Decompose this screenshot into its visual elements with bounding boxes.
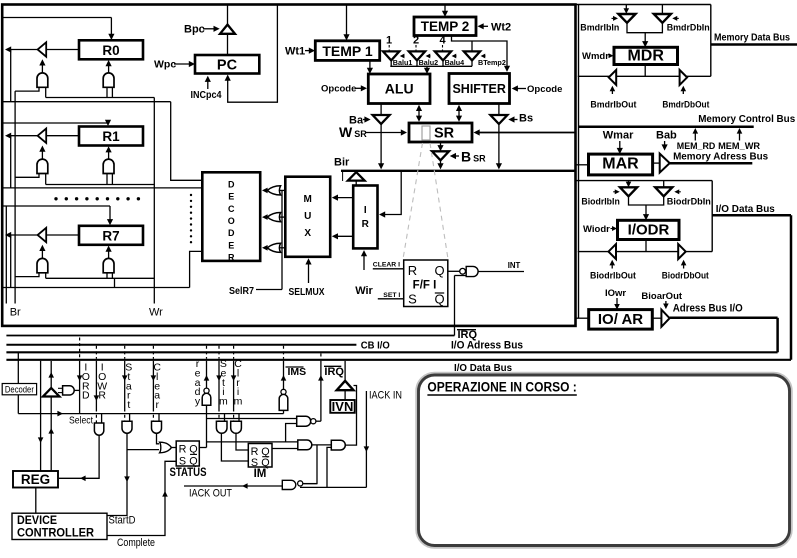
buffer B SR triangle bbox=[432, 151, 449, 160]
svg-text:Q: Q bbox=[434, 263, 444, 278]
and-gate R1 write enable bbox=[103, 159, 114, 173]
and-gate R7 read enable bbox=[37, 258, 48, 272]
svg-text:E: E bbox=[228, 240, 234, 250]
svg-text:Wmdr: Wmdr bbox=[582, 51, 609, 62]
bus Memory Control Bus bbox=[579, 126, 754, 129]
wire line3 common bbox=[207, 441, 298, 443]
wire MEM_RD arrow bbox=[694, 130, 696, 141]
wire ready-status vertical bbox=[206, 414, 208, 448]
wire memory top line bbox=[576, 4, 711, 6]
svg-text:Bab: Bab bbox=[656, 130, 677, 142]
wire IRQ from flip-flop gate down to IRQ line bbox=[454, 276, 456, 336]
bus I/O Data Bus bbox=[6, 359, 791, 361]
wire R7 write gate inputs bbox=[106, 273, 108, 279]
wire Bpc triangle to top border bbox=[227, 5, 229, 25]
wire TEMP1 to ALU bbox=[369, 60, 371, 71]
wire Setim gate to IM S bbox=[221, 433, 248, 461]
wire IO/AR to Bioar triangle bbox=[652, 317, 661, 319]
wire top border to TEMP1 bbox=[346, 5, 348, 38]
wire Opcode into SHIFTER bbox=[514, 88, 526, 90]
wire SET I bbox=[378, 298, 404, 300]
svg-text:Q: Q bbox=[434, 292, 444, 307]
wire Biodr triangles to IODR bbox=[629, 196, 664, 205]
wire Clrim gate stub bbox=[238, 414, 240, 422]
svg-text:MDR: MDR bbox=[627, 48, 664, 65]
wire Decoder to Select line bbox=[17, 395, 19, 414]
buffer Bab triangle bbox=[660, 154, 670, 173]
svg-text:m: m bbox=[234, 396, 243, 408]
wire R1 Wr rail bbox=[46, 184, 155, 186]
svg-text:BmdrIbIn: BmdrIbIn bbox=[580, 23, 619, 33]
gate IRQ nand bbox=[297, 416, 311, 426]
datapath enclosure box bbox=[2, 5, 575, 326]
wire R0 write gate inputs bbox=[106, 87, 108, 97]
wire R1 read gate input to Br chain bbox=[15, 174, 39, 178]
svg-text:BiodrIbIn: BiodrIbIn bbox=[581, 197, 619, 207]
wire memory data bus vertical bbox=[710, 5, 712, 77]
wire R0 bus-read line to decoder bbox=[3, 101, 171, 103]
wire BiodrIbIn enable bbox=[613, 191, 617, 193]
svg-text:ALU: ALU bbox=[385, 81, 414, 97]
svg-text:OPERAZIONE IN CORSO :: OPERAZIONE IN CORSO : bbox=[427, 380, 576, 395]
svg-text:IACK OUT: IACK OUT bbox=[189, 488, 232, 500]
wire IM Q to gate B bbox=[272, 448, 298, 450]
wire Select line bbox=[18, 413, 283, 415]
wire Select stub to IOWR gate bbox=[101, 414, 103, 423]
register R7 bbox=[79, 226, 143, 245]
wire Bir triangle to IR top bbox=[355, 181, 357, 186]
buffer Bir triangle bbox=[348, 172, 365, 181]
svg-text:Bs: Bs bbox=[519, 113, 533, 125]
bubble INT gate input bbox=[460, 268, 466, 274]
svg-text:SR: SR bbox=[434, 126, 455, 142]
wire triangle drops to B-operand bus bbox=[390, 60, 392, 66]
svg-text:MAR: MAR bbox=[602, 156, 639, 173]
wire Balu1 enable bbox=[402, 55, 405, 57]
wire IORD gate inputs bbox=[58, 387, 63, 389]
buffer BiodrIbOut triangle bbox=[609, 244, 617, 259]
svg-text:TEMP 1: TEMP 1 bbox=[322, 43, 373, 59]
svg-text:Q: Q bbox=[189, 455, 197, 467]
gate Start-select and-gate bbox=[122, 421, 132, 433]
svg-text:MEM_RD: MEM_RD bbox=[677, 141, 716, 151]
svg-text:Q: Q bbox=[189, 444, 197, 456]
and-gate R7 write enable bbox=[103, 258, 114, 272]
wire MAR input from border bbox=[576, 164, 589, 166]
buffer BTemp2 triangle bbox=[464, 51, 480, 60]
wire SHIFTER to Bs triangle bbox=[498, 104, 500, 116]
magnifier dashed cone left bbox=[403, 143, 423, 259]
wire IORD column bbox=[79, 338, 81, 359]
wire IO/AR input from border bbox=[576, 317, 589, 319]
and-gate R0 write enable bbox=[103, 73, 114, 87]
wire IRQ column bbox=[320, 354, 322, 358]
bus Adress Bus I/O L bbox=[670, 317, 778, 320]
wire INT output bbox=[478, 271, 524, 273]
buffer R7 read triangle bbox=[38, 228, 47, 242]
register TEMP 2 bbox=[414, 17, 476, 36]
buffer REG output triangle bbox=[43, 388, 59, 397]
wire Bs triangle to B-bus bbox=[498, 124, 500, 167]
wire select gates vertical link bbox=[281, 190, 283, 289]
svg-text:Adress Bus I/O: Adress Bus I/O bbox=[673, 303, 743, 315]
wire IODR to rail bbox=[645, 240, 647, 252]
wire Setim column bbox=[218, 346, 220, 359]
wire Ba enable bbox=[363, 119, 368, 121]
magnifier dashed cone right bbox=[430, 143, 448, 259]
buffer R1 read triangle bbox=[38, 129, 47, 143]
wire constant 2 dashed bbox=[415, 45, 417, 51]
bubble IRQ nand output bbox=[311, 419, 316, 424]
overline IM Q-bar bbox=[262, 456, 269, 458]
gate decoder select 2 bbox=[267, 213, 280, 222]
svg-text:Opcode: Opcode bbox=[527, 84, 562, 95]
wire IMS gate input bbox=[283, 410, 285, 413]
wire W SR into SR bbox=[366, 132, 405, 134]
wire constant 4 dashed bbox=[442, 45, 444, 51]
wire select gate stubs to MUX bbox=[279, 189, 285, 191]
wire R1 read junction drop bbox=[10, 136, 12, 188]
wire R7 read gate input to Br chain bbox=[15, 273, 39, 277]
wire IORD gate output bbox=[74, 389, 80, 391]
register I/ODR bbox=[618, 220, 680, 239]
gate Setim and-gate bbox=[216, 421, 227, 433]
wire MEM_WR arrow bbox=[739, 130, 741, 141]
wire REG output triangle to data bus bbox=[50, 361, 52, 388]
buffer BmdrDbOut triangle bbox=[680, 70, 688, 85]
svg-text:IOwr: IOwr bbox=[605, 288, 626, 299]
wire CLEAR I bbox=[373, 268, 404, 270]
gate IOWR-select and-gate bbox=[94, 423, 103, 435]
wire R7 write feed from left border bbox=[3, 205, 110, 207]
wire R0 read gate input to Br chain bbox=[15, 87, 39, 91]
svg-text:F/F I: F/F I bbox=[413, 280, 437, 292]
buffer Balu1 triangle bbox=[383, 51, 399, 60]
svg-text:BmdrDbIn: BmdrDbIn bbox=[667, 23, 710, 33]
buffer BmdrIbIn triangle bbox=[618, 14, 635, 23]
wire BiodrDbIn enable bbox=[677, 191, 681, 193]
wire gate B output bbox=[312, 444, 332, 446]
wire Clrim gate to IM R bbox=[236, 433, 248, 450]
block SHIFTER bbox=[449, 74, 510, 104]
buffer R0 read triangle bbox=[38, 42, 47, 56]
wire left auxiliary vertical bbox=[5, 206, 7, 304]
buffer BiodrIbIn triangle bbox=[620, 187, 637, 196]
wire top border to TEMP2 bbox=[444, 5, 446, 15]
wire Complete to STATUS S bbox=[107, 461, 176, 535]
svg-text:I: I bbox=[364, 205, 367, 216]
bus internal B-bus bbox=[341, 170, 575, 172]
wire R1 write gate inputs bbox=[106, 174, 108, 185]
wire Start column bbox=[124, 346, 126, 359]
wire ready column bbox=[206, 346, 208, 359]
svg-text:Bpc: Bpc bbox=[184, 24, 205, 36]
wire IACK IN vertical bbox=[365, 391, 367, 487]
wire Select stub to Clear gate bbox=[158, 414, 160, 422]
panel OPERAZIONE IN CORSO bbox=[419, 375, 790, 546]
bus I/O Adress Bus bbox=[6, 351, 777, 353]
wire IOWR column bbox=[95, 346, 97, 359]
buffer IVN triangle bbox=[337, 381, 354, 390]
gate B and-gate bbox=[298, 440, 312, 450]
buffer Bs triangle bbox=[490, 115, 507, 124]
wire R0 output to read triangle bbox=[46, 49, 79, 51]
wire Start gate to status OR bbox=[127, 449, 159, 451]
and-gate R1 read enable bbox=[37, 159, 48, 173]
wire IVN triangle to data bus bbox=[344, 361, 346, 381]
gate decoder select 3 bbox=[267, 243, 280, 252]
svg-text:STATUS: STATUS bbox=[170, 467, 207, 479]
wire B-bus to IR input bbox=[381, 172, 401, 215]
svg-text:S: S bbox=[408, 292, 417, 307]
svg-text:Wt1: Wt1 bbox=[285, 46, 305, 58]
wire data bus into REG bbox=[40, 361, 42, 471]
svg-text:Wt2: Wt2 bbox=[491, 21, 511, 33]
wire Balu4 enable bbox=[454, 55, 457, 57]
wire Ba triangle to B-bus bbox=[380, 124, 382, 167]
gate IORD and-gate bbox=[63, 386, 75, 395]
svg-text:Select: Select bbox=[69, 414, 93, 426]
svg-text:I/ODR: I/ODR bbox=[628, 222, 670, 239]
wire Wmar arrow bbox=[619, 141, 621, 152]
svg-text:SELMUX: SELMUX bbox=[289, 286, 325, 298]
gate IACK nand bbox=[282, 480, 296, 489]
svg-text:CB I/O: CB I/O bbox=[361, 340, 390, 352]
svg-text:I/O Adress Bus: I/O Adress Bus bbox=[451, 339, 523, 351]
wire IR to MUX upper bbox=[334, 197, 353, 199]
wire Setim gate stub bbox=[224, 414, 226, 422]
overline IRQ at flip-flop drop bbox=[457, 329, 476, 331]
wire SR input from right bbox=[476, 132, 575, 134]
svg-text:Wpc: Wpc bbox=[154, 59, 176, 71]
svg-text:Complete: Complete bbox=[117, 537, 155, 549]
wire BiodrIbOut enable bbox=[611, 262, 613, 269]
svg-text:Opcode: Opcode bbox=[321, 84, 356, 95]
bubble IACK nand bbox=[298, 481, 303, 486]
register MDR bbox=[614, 47, 678, 64]
svg-text:Memory Data Bus: Memory Data Bus bbox=[714, 33, 790, 44]
flip-flop IM bbox=[248, 444, 272, 468]
wire IACK-in branch to gate C bbox=[327, 447, 331, 487]
register PC bbox=[195, 55, 259, 74]
wire Bab arrow bbox=[664, 141, 666, 148]
wire IVN to triangle bbox=[344, 390, 346, 400]
bus IRQ line bbox=[6, 335, 454, 337]
register R1 bbox=[79, 127, 143, 146]
svg-text:IRQ: IRQ bbox=[324, 366, 344, 378]
wire IODR output rail bbox=[578, 251, 712, 253]
svg-text:Memory Control Bus: Memory Control Bus bbox=[698, 113, 795, 125]
bubble ready driver bbox=[204, 388, 209, 393]
svg-text:IO/ AR: IO/ AR bbox=[598, 311, 643, 328]
overline IMS bbox=[286, 366, 304, 368]
register R0 bbox=[79, 40, 143, 59]
wire drop to BiodrIbIn triangle bbox=[628, 181, 630, 185]
svg-text:Wmar: Wmar bbox=[603, 130, 634, 142]
gate status OR bbox=[160, 442, 172, 453]
svg-text:IRQ: IRQ bbox=[458, 329, 478, 341]
svg-text:M: M bbox=[304, 194, 312, 205]
wire SelR7 bbox=[256, 289, 282, 291]
wire Balu2 enable bbox=[428, 55, 431, 57]
wire TEMP2 branch to BTemp2 bbox=[471, 41, 473, 51]
buffer Bpc triangle bbox=[220, 25, 235, 34]
svg-text:R7: R7 bbox=[102, 228, 119, 243]
buffer BmdrDbIn triangle bbox=[654, 14, 671, 23]
svg-text:S: S bbox=[179, 455, 186, 467]
svg-text:R1: R1 bbox=[102, 129, 120, 144]
wire R7 read junction drop bbox=[10, 235, 12, 288]
svg-text:t: t bbox=[127, 399, 130, 411]
wire BTemp2 enable bbox=[483, 55, 486, 57]
wire R7 write enable to register bbox=[108, 248, 110, 259]
svg-text:R0: R0 bbox=[102, 43, 119, 58]
wire Clear column bbox=[152, 346, 154, 359]
block DEVICE CONTROLLER bbox=[12, 513, 107, 539]
svg-text:TEMP 2: TEMP 2 bbox=[421, 19, 470, 34]
bubble IMS driver bbox=[281, 389, 286, 394]
wire BioarOut arrow bbox=[665, 301, 667, 307]
svg-text:C: C bbox=[228, 204, 235, 214]
svg-text:Decoder: Decoder bbox=[5, 385, 34, 396]
gate Clrim and-gate bbox=[231, 421, 242, 433]
ellipsis dots between R1 and R7 bbox=[54, 197, 57, 200]
wire MDR output rail bbox=[578, 75, 711, 77]
svg-text:SET I: SET I bbox=[383, 292, 400, 299]
svg-text:D: D bbox=[228, 180, 235, 190]
svg-text:y: y bbox=[195, 396, 201, 408]
flip-flop STATUS bbox=[176, 441, 199, 466]
wire status OR to STATUS R bbox=[171, 447, 176, 449]
svg-text:DEVICE: DEVICE bbox=[17, 515, 57, 527]
wire BmdrIbIn enable bbox=[612, 17, 616, 19]
wire R7 bus-read line to decoder bbox=[3, 287, 190, 289]
gate ready driver bbox=[202, 393, 211, 405]
svg-text:E: E bbox=[228, 192, 234, 202]
wire BmdrDbIn enable bbox=[675, 17, 679, 19]
bus Memory Adress Bus line bbox=[670, 162, 753, 165]
buffer BiodrDbIn triangle bbox=[655, 187, 672, 196]
wire R0 Wr rail bbox=[46, 97, 155, 99]
wire Select stub to Start gate bbox=[129, 414, 131, 422]
wire R7 read triangle to left bus bbox=[8, 234, 38, 236]
wire address bus to Decoder bbox=[17, 352, 19, 383]
wire Wiodr bbox=[611, 228, 615, 230]
wire R0 read gate input to Wr rail bbox=[45, 87, 47, 97]
wire bus stub left of Bir bbox=[342, 171, 344, 181]
gate INT and-gate bbox=[466, 266, 478, 276]
gate C and-gate bbox=[331, 440, 345, 450]
svg-text:PC: PC bbox=[217, 58, 238, 74]
svg-text:m: m bbox=[219, 396, 228, 408]
wire IMS column bbox=[283, 346, 285, 359]
svg-text:2: 2 bbox=[413, 35, 419, 47]
gate decoder select 1 bbox=[267, 186, 280, 195]
flip-flop F/F I bbox=[404, 260, 448, 307]
gate Clear-select and-gate bbox=[152, 421, 162, 433]
wire B SR triangle to B-bus bbox=[440, 160, 442, 167]
wire Clear gate to status OR bbox=[157, 433, 160, 444]
wire R7 read enable to triangle bbox=[41, 247, 43, 258]
overline STATUS Q-bar bbox=[190, 453, 197, 455]
svg-text:r: r bbox=[155, 399, 159, 411]
wire ALU to Ba triangle bbox=[380, 104, 382, 116]
wire R0 read junction drop bbox=[10, 50, 12, 102]
wire IRQ nand output up to bus bbox=[316, 420, 321, 422]
svg-text:R: R bbox=[228, 252, 235, 262]
svg-text:D: D bbox=[82, 390, 90, 402]
buffer Bioar triangle bbox=[661, 310, 669, 327]
overline Q-bar of F/F I bbox=[435, 292, 444, 294]
wire PC feedback loop from top border bbox=[228, 5, 278, 102]
register MAR bbox=[589, 154, 653, 175]
wire Wmdr bbox=[609, 55, 612, 57]
register SR bbox=[409, 123, 472, 142]
svg-text:MEM_WR: MEM_WR bbox=[718, 141, 761, 151]
SR interrupt bit cell bbox=[422, 126, 430, 140]
box Decoder small bbox=[2, 384, 36, 395]
buffer BiodrDbOut triangle bbox=[678, 244, 686, 259]
svg-text:INT: INT bbox=[508, 261, 521, 270]
svg-text:Wir: Wir bbox=[355, 285, 373, 297]
svg-text:Memory Adress Bus: Memory Adress Bus bbox=[673, 151, 768, 163]
buffer Balu2 triangle bbox=[409, 51, 425, 60]
wire BmdrDbOut enable bbox=[682, 88, 684, 94]
wire Clrim column bbox=[233, 346, 235, 359]
svg-text:IACK IN: IACK IN bbox=[369, 390, 402, 402]
svg-text:BiodrDbIn: BiodrDbIn bbox=[667, 197, 711, 207]
wire B SR enable bbox=[452, 155, 459, 157]
wire R7 rail link bbox=[114, 278, 116, 287]
svg-text:U: U bbox=[304, 211, 311, 222]
svg-text:IVN: IVN bbox=[332, 399, 354, 414]
wire R0 read enable to triangle bbox=[41, 62, 43, 73]
wire drop to BmdrIbIn triangle bbox=[625, 5, 627, 12]
wire gate B output down to IACK nand bbox=[303, 445, 317, 484]
wire ready gate input bbox=[206, 405, 208, 413]
buffer Balu4 triangle bbox=[435, 51, 451, 60]
wire MAR to Bab triangle bbox=[653, 162, 660, 164]
dotted line left of decoder bbox=[190, 194, 192, 196]
block DECODER bbox=[202, 172, 260, 261]
wire REG output vertical bbox=[50, 397, 52, 472]
svg-text:BioarOut: BioarOut bbox=[641, 291, 682, 302]
buffer BmdrIbOut triangle bbox=[609, 70, 617, 85]
svg-text:X: X bbox=[304, 228, 311, 239]
svg-text:Bir: Bir bbox=[334, 157, 350, 169]
wire R0 write feed from left border bbox=[3, 17, 111, 19]
wire Bpc triangle to PC top bbox=[227, 34, 229, 55]
wire BiodrDbOut enable bbox=[683, 262, 685, 269]
wire decoder select 1 arrow bbox=[264, 189, 267, 191]
svg-text:BiodrDbOut: BiodrDbOut bbox=[662, 271, 709, 281]
wire R1 write enable to register bbox=[108, 149, 110, 160]
wire R7 output to read triangle bbox=[46, 234, 79, 236]
wire TEMP2 output elbow to SHIFTER bbox=[452, 36, 508, 70]
wire R1 output to read triangle bbox=[46, 135, 79, 137]
wire IOwr arrow bbox=[616, 298, 618, 307]
wire write strobe to REG bbox=[59, 435, 99, 478]
wire ALU-SR double arrow bbox=[418, 107, 420, 120]
wire Bmdr triangles to MDR bbox=[627, 23, 662, 33]
bus CB I/O bbox=[6, 344, 356, 346]
svg-text:BmdrDbOut: BmdrDbOut bbox=[662, 100, 709, 110]
wire R1 write feed from left border bbox=[3, 122, 108, 124]
svg-text:BmdrIbOut: BmdrIbOut bbox=[590, 100, 636, 110]
wire SELMUX arrow bbox=[308, 261, 310, 284]
svg-text:R: R bbox=[179, 444, 187, 456]
wire R7 read gate input to Wr rail bbox=[45, 273, 47, 279]
